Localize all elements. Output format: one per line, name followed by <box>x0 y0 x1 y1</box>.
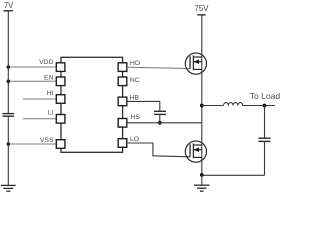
svg-text:HS: HS <box>131 114 141 121</box>
svg-text:75V: 75V <box>195 4 210 13</box>
capacitor C1 (VDD bypass) <box>3 114 15 117</box>
svg-text:NC: NC <box>130 77 140 84</box>
ground GND left <box>1 185 16 191</box>
power rail 75V label <box>195 4 210 13</box>
node junction rail-VDD <box>7 65 11 69</box>
transistor Q2 low-side NMOS <box>185 141 206 162</box>
wire HI input stub <box>23 98 56 100</box>
node junction rail-VSS <box>7 142 11 146</box>
svg-text:EN: EN <box>44 74 54 81</box>
svg-text:To Load: To Load <box>250 91 280 101</box>
capacitor C3 output <box>259 138 271 141</box>
pin VSS square <box>56 140 65 149</box>
wire ground stub <box>201 175 203 185</box>
wire HB to bootstrap cap <box>127 101 160 111</box>
pin HI square <box>56 95 65 104</box>
pin NC square <box>118 77 127 86</box>
wire HS to switch node <box>127 122 202 124</box>
pin HS square <box>118 119 127 128</box>
svg-text:HI: HI <box>47 90 54 97</box>
power rail 75V bar <box>197 14 205 16</box>
svg-text:VSS: VSS <box>40 137 54 144</box>
node junction ground <box>200 173 204 177</box>
node junction output <box>263 104 267 108</box>
op-amp U1 gate driver body <box>61 57 123 152</box>
svg-text:VDD: VDD <box>39 59 53 66</box>
svg-text:HB: HB <box>130 95 140 102</box>
wire output cap to ground rail <box>264 141 266 175</box>
pin VDD square <box>56 63 65 72</box>
pin LI square <box>56 115 65 124</box>
wire switch node to inductor <box>202 105 224 107</box>
svg-text:LO: LO <box>130 136 139 143</box>
node junction switch node to inductor <box>200 104 204 108</box>
node junction rail-EN <box>7 80 11 84</box>
wire 7V rail lower (cap to ground) <box>7 116 9 185</box>
node junction cap-HS <box>158 121 162 125</box>
pin HO square <box>118 63 127 72</box>
wire VSS <box>8 143 56 145</box>
wire bootstrap cap to HS net <box>159 114 161 122</box>
inductor L1 <box>224 103 243 106</box>
wire EN <box>8 80 56 82</box>
wire VDD <box>8 66 56 68</box>
ground GND right <box>194 185 210 191</box>
wire LI input stub <box>23 118 56 120</box>
pin LO square <box>118 139 127 148</box>
wire HO to Q1 gate <box>127 67 190 68</box>
wire inductor to output node <box>243 105 275 107</box>
pin EN square <box>56 77 65 86</box>
svg-text:HO: HO <box>130 60 140 67</box>
capacitor C2 bootstrap <box>154 111 166 114</box>
wire 7V rail upper (down to bypass cap) <box>7 11 9 113</box>
svg-text:7V: 7V <box>4 1 14 10</box>
wire LO to Q2 gate <box>127 143 190 157</box>
wire bottom ground rail <box>202 174 265 176</box>
wire output node down to output cap <box>264 106 266 139</box>
pin HB square <box>118 97 127 106</box>
wire 75V rail / half-bridge vertical <box>201 15 203 175</box>
transistor Q1 high-side NMOS <box>185 53 206 74</box>
svg-text:LI: LI <box>48 110 54 117</box>
power rail 7V bar <box>3 10 12 12</box>
power rail 7V label <box>4 1 14 10</box>
